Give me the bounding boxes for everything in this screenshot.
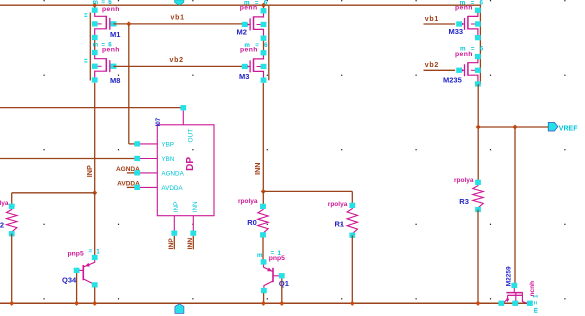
wire M1/M8 bulk rail	[89, 13, 91, 81]
transistor Q34 (pnp5)	[74, 255, 98, 288]
wire AGNDA stub	[127, 172, 135, 174]
junction INP node	[92, 190, 97, 195]
svg-text:INP: INP	[173, 202, 180, 213]
svg-text:penh: penh	[455, 4, 473, 11]
transistor M235	[456, 54, 481, 87]
wire INP stub below block	[173, 236, 175, 250]
wire M2 drain to M3 source	[263, 40, 265, 51]
svg-text:Q1: Q1	[279, 279, 289, 288]
wire vb1 right segment	[424, 23, 456, 25]
transistor M2259 (ncnh, rotated)	[498, 283, 532, 306]
svg-text:rpolya: rpolya	[328, 201, 348, 208]
wire M33 source/bulk rail	[479, 5, 481, 85]
ground gnda symbol	[175, 304, 184, 314]
wire vb2 right segment	[424, 69, 456, 71]
wire INN stub below block	[192, 236, 194, 250]
junction on vdda at M1	[92, 3, 97, 8]
wire M1 drain to M8 source	[94, 40, 96, 52]
svg-text:INN: INN	[253, 163, 262, 175]
resistor R1 (rpolya)	[328, 201, 358, 238]
svg-text:penh: penh	[240, 46, 258, 53]
wire vb1	[113, 23, 244, 25]
wire ground rail	[0, 302, 532, 304]
svg-text:M1: M1	[110, 30, 120, 39]
svg-text:YBP: YBP	[161, 141, 174, 148]
svg-text:vb1: vb1	[171, 15, 185, 22]
svg-text:M2: M2	[237, 28, 247, 37]
wire Q34 base to rail	[76, 273, 78, 303]
wire Q1 collector to rail	[263, 293, 265, 303]
svg-text:=: =	[89, 248, 93, 255]
svg-text:penh: penh	[102, 46, 120, 53]
wire R1 to ground rail	[351, 235, 353, 303]
svg-text:vb2: vb2	[425, 62, 439, 69]
wire Q34 collector to rail	[94, 287, 96, 303]
svg-text:Q34: Q34	[62, 276, 77, 285]
svg-text:M8: M8	[110, 76, 120, 85]
wire vb1 down to YBP	[128, 24, 130, 144]
junction Q1 collector/ground	[261, 301, 266, 306]
wire INN to R0	[262, 191, 264, 204]
wire INP to R2	[12, 192, 95, 194]
svg-text:INN: INN	[187, 238, 194, 250]
junction Q1 base/ground	[279, 301, 284, 306]
svg-text:pnp5: pnp5	[68, 250, 84, 257]
resistor R2 (rpolya)	[0, 200, 17, 237]
junction VREF at M2259 branch	[512, 124, 517, 129]
svg-text:DP: DP	[185, 157, 196, 171]
svg-text:M235: M235	[443, 75, 462, 84]
bulk net mark M8	[84, 59, 87, 60]
svg-text:VREF: VREF	[559, 125, 578, 132]
svg-text:m: m	[257, 252, 263, 259]
wire VREF down to M2259	[514, 127, 516, 283]
transistor M8	[92, 50, 117, 83]
junction Q34 base/ground	[74, 301, 79, 306]
transistor M33	[456, 8, 481, 41]
svg-text:YBN: YBN	[161, 156, 174, 163]
svg-text:INP: INP	[168, 238, 175, 250]
wire OUT net	[0, 107, 183, 109]
wire vdda power rail	[0, 4, 480, 6]
wire M2/M3 bulk rail	[268, 5, 270, 80]
junction Q34 collector/ground	[92, 301, 97, 306]
wire INN net vertical (M3 drain)	[262, 83, 264, 191]
svg-text:OUT: OUT	[187, 129, 194, 143]
svg-text:m = 1: m = 1	[533, 294, 540, 313]
svg-text:penh: penh	[240, 4, 258, 11]
junction on vdda at M2	[261, 3, 266, 8]
junction R3/ground	[475, 301, 480, 306]
svg-text:R1: R1	[335, 219, 345, 228]
svg-text:R3: R3	[459, 197, 469, 206]
junction VREF at rail	[476, 124, 481, 129]
svg-text:1: 1	[96, 248, 100, 255]
svg-text:rpolya: rpolya	[0, 200, 9, 207]
wire AVDDA stub	[127, 186, 135, 188]
svg-text:rpolya: rpolya	[454, 177, 474, 184]
junction R1/ground	[350, 301, 355, 306]
svg-text:rpolya: rpolya	[238, 198, 258, 205]
svg-text:AGNDA: AGNDA	[161, 170, 184, 177]
svg-text:M33: M33	[449, 27, 464, 36]
svg-text:penh: penh	[102, 6, 120, 13]
wire R0 to Q1 emitter	[262, 237, 264, 260]
wire YBN net	[0, 158, 135, 160]
wire Q1 base to rail	[281, 278, 283, 303]
bulk net mark M1	[84, 13, 87, 14]
wire R2 to ground rail	[11, 234, 13, 303]
svg-text:R2: R2	[0, 221, 4, 230]
svg-text:AVDDA: AVDDA	[161, 185, 183, 192]
transistor Q1 (pnp5)	[261, 259, 285, 293]
svg-text:vb1: vb1	[425, 16, 439, 23]
wire M235 drain down	[477, 84, 479, 181]
wire M1 source stub	[94, 5, 96, 9]
wire R3 to ground rail	[477, 210, 479, 304]
svg-text:pnp5: pnp5	[269, 255, 285, 262]
junction INN node	[261, 189, 266, 194]
svg-text:R0: R0	[247, 218, 257, 227]
resistor R0 (rpolya)	[238, 198, 268, 237]
wire vb2	[113, 65, 244, 67]
resistor R3 (rpolya)	[454, 177, 483, 212]
svg-text:I07: I07	[156, 117, 162, 126]
supply vdda symbol	[175, 0, 184, 5]
wire INN to R1	[263, 190, 352, 192]
wire VREF horizontal	[478, 126, 548, 128]
svg-text:penh: penh	[455, 51, 473, 58]
transistor M1	[92, 8, 117, 41]
junction R2/ground	[9, 301, 14, 306]
svg-text:M3: M3	[239, 72, 249, 81]
wire INP down to Q34	[94, 193, 96, 256]
svg-text:INP: INP	[85, 165, 94, 177]
svg-text:M2259: M2259	[506, 266, 513, 286]
op-amp block I07 (DP)	[134, 105, 214, 236]
transistor M2	[242, 8, 267, 41]
svg-text:vb2: vb2	[170, 57, 184, 64]
output pin VREF	[548, 122, 558, 131]
svg-text:INN: INN	[192, 201, 199, 212]
wire INP net vertical	[94, 83, 96, 193]
wire M2 source stub	[263, 5, 265, 9]
transistor M3	[242, 50, 267, 83]
junction vb1/YBP	[126, 21, 131, 26]
